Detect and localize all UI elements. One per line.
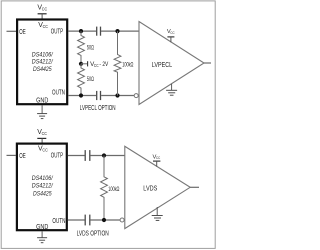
resistor R3 100k [114, 31, 121, 95]
resistor R2 50ohm [78, 64, 85, 96]
power VCC supply (box U1) [37, 5, 47, 20]
IC U1 DS4106/DS4212/DS4425 [17, 20, 67, 105]
svg-text:DS4425: DS4425 [33, 190, 52, 197]
svg-text:CC: CC [42, 148, 48, 153]
svg-text:GND: GND [36, 224, 48, 231]
ground (below U1) [37, 105, 47, 118]
op-amp U4 LVDS receiver [125, 146, 190, 228]
resistor R1 50ohm [78, 31, 85, 64]
power VCC (U2) [167, 29, 175, 42]
svg-text:OE: OE [19, 29, 26, 36]
wire OUTP to cap C3 [68, 155, 85, 157]
wire C4 to bubble [90, 219, 120, 221]
svg-text:DS4212/: DS4212/ [32, 183, 54, 190]
capacitor C1 [97, 27, 101, 36]
wire C1 to triangle input [101, 30, 139, 32]
svg-text:OUTN: OUTN [52, 89, 65, 96]
node junction OUTN/R1 chain [79, 93, 83, 97]
svg-text:100kΩ: 100kΩ [108, 186, 119, 193]
capacitor C4 [85, 215, 90, 226]
power VCC supply (box U3) [37, 129, 47, 144]
ground (U4) [152, 207, 163, 220]
svg-text:LVDS: LVDS [143, 186, 157, 193]
wire OUTN to cap C2 [68, 95, 96, 97]
node junction OUTP/R3 [115, 29, 119, 33]
value label DS4106/DS4212/DS4425 (U3) [32, 175, 54, 198]
wire OUTN to cap C4 [68, 219, 85, 221]
node junction OUTN/R3 [115, 93, 119, 97]
svg-text:DS4425: DS4425 [33, 66, 52, 73]
svg-text:CC: CC [156, 155, 160, 160]
op-amp U2 LVPECL receiver [139, 22, 204, 105]
inversion bubble (U2 OUTN input) [134, 94, 138, 98]
ground (below U3) [37, 231, 47, 242]
svg-text:OUTP: OUTP [51, 153, 64, 160]
svg-text:OE: OE [19, 153, 26, 160]
wire OUTP to cap C1 [68, 30, 96, 32]
node junction OUTN/R4 [102, 218, 106, 222]
svg-text:- 2V: - 2V [99, 61, 109, 68]
node junction OUTP/R1 [79, 29, 83, 33]
IC U3 DS4106/DS4212/DS4425 [17, 144, 67, 231]
svg-text:GND: GND [36, 98, 48, 105]
svg-text:CC: CC [170, 30, 174, 35]
ground (U2) [166, 84, 177, 95]
svg-text:LVPECL: LVPECL [152, 62, 173, 69]
wire U2 output [204, 62, 211, 64]
svg-text:DS4106/: DS4106/ [32, 51, 54, 58]
svg-text:CC: CC [42, 7, 48, 12]
value label DS4106/DS4212/DS4425 (U1) [32, 51, 54, 73]
capacitor C2 [97, 91, 101, 100]
wire OE input (U1) [7, 30, 17, 32]
wire C3 to triangle input [90, 155, 125, 157]
power VCC (U4) [153, 154, 161, 166]
wire OE input (U3) [7, 154, 17, 156]
svg-text:OUTP: OUTP [51, 29, 64, 36]
capacitor C3 [85, 150, 90, 161]
wire C2 to bubble [101, 95, 134, 97]
svg-text:CC: CC [94, 63, 99, 68]
svg-text:LVDS OPTION: LVDS OPTION [77, 230, 109, 237]
svg-text:OUTN: OUTN [52, 218, 65, 225]
svg-text:CC: CC [42, 131, 48, 136]
svg-text:50Ω: 50Ω [87, 76, 94, 83]
node junction OUTP/R4 [102, 153, 106, 157]
node VCC-2V tap [79, 61, 109, 68]
wire U4 output [190, 186, 199, 188]
svg-text:CC: CC [43, 24, 49, 29]
svg-text:DS4106/: DS4106/ [32, 175, 54, 182]
resistor R4 100k [101, 156, 108, 221]
inversion bubble (U4 OUTN input) [120, 218, 124, 222]
frame border [1, 1, 215, 249]
svg-text:50Ω: 50Ω [87, 44, 94, 51]
svg-text:DS4212/: DS4212/ [32, 59, 54, 66]
svg-text:100kΩ: 100kΩ [122, 62, 133, 69]
svg-text:LVPECL OPTION: LVPECL OPTION [80, 105, 116, 112]
